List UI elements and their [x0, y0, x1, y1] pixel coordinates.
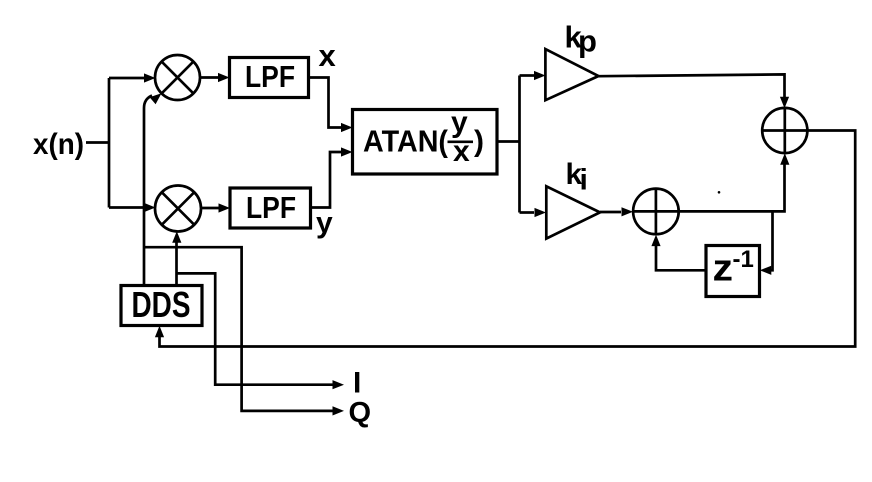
svg-text:LPF: LPF: [246, 190, 296, 225]
wire input dash: [86, 141, 109, 144]
multiplier M1 (top mixer): [155, 55, 200, 100]
wire ki output to summer S2: [600, 211, 621, 214]
wire branch vertical to kp and ki: [518, 76, 521, 213]
wire kp output to summer S1: [599, 74, 785, 98]
svg-text:p: p: [578, 24, 597, 59]
multiplier M2 (bottom mixer): [155, 186, 201, 232]
wire S2 output to summer S1 bottom: [679, 164, 785, 211]
svg-text:ATAN(: ATAN(: [363, 124, 449, 159]
LPF2 box: [230, 188, 311, 228]
gain kp triangle: [545, 49, 598, 100]
wire LPF2 to ATAN: [311, 152, 344, 208]
wire branch to z-1 input: [768, 211, 773, 270]
wire M1 to LPF1: [200, 76, 220, 79]
svg-text:Q: Q: [349, 397, 372, 429]
wire I tap from sin line: [177, 273, 334, 384]
wire S1 output feedback to DDS: [160, 131, 856, 347]
summer S1 (output adder): [762, 108, 807, 153]
wire to bottom multiplier: [109, 206, 146, 209]
wire input branch vertical: [108, 78, 111, 208]
svg-text:i: i: [580, 164, 588, 197]
wire M2 to LPF2: [201, 207, 221, 210]
svg-text:I: I: [353, 367, 361, 400]
wire DDS cos output to top multiplier M1: [144, 96, 152, 286]
wire z-1 output to S2 bottom: [656, 245, 706, 270]
LPF1 box: [230, 58, 309, 98]
wire Q tap from cos line: [144, 247, 333, 411]
U1 fraction bar: [448, 140, 474, 143]
DDS box: [121, 286, 202, 326]
wire into ki gain: [520, 211, 535, 214]
svg-text:): ): [474, 125, 484, 158]
wire LPF1 to ATAN: [309, 78, 344, 128]
svg-text:x: x: [319, 38, 337, 73]
wire into kp gain: [520, 74, 535, 77]
svg-text:x(n): x(n): [33, 128, 84, 161]
svg-text:z: z: [713, 247, 734, 289]
op block U1 ATAN(y/x) box: [353, 110, 498, 175]
scan speck: [718, 191, 721, 194]
gain ki triangle: [546, 186, 600, 238]
wire to top multiplier: [109, 77, 146, 80]
svg-text:DDS: DDS: [132, 284, 191, 325]
summer S2 (integrator adder): [633, 189, 679, 235]
wire ATAN output: [497, 140, 520, 143]
delay Z1 box z^-1: [706, 246, 760, 297]
wire DDS sin output to bottom multiplier M2: [175, 241, 178, 286]
svg-text:LPF: LPF: [245, 59, 295, 94]
svg-text:x: x: [453, 135, 470, 168]
svg-text:y: y: [316, 207, 333, 240]
svg-text:-1: -1: [733, 246, 754, 273]
